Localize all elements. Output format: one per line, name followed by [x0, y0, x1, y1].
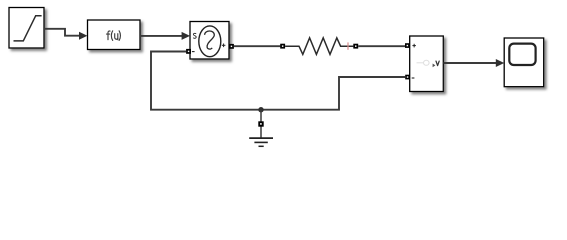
voltage measurement block [410, 36, 444, 92]
feedback wire: source minus to ground rail to measurement minus [151, 52, 405, 110]
port + of voltage source [229, 44, 234, 49]
wire resistor to voltage measurement + [358, 45, 405, 47]
wire v output to scope [443, 59, 504, 67]
wire saturation to f(u) [44, 29, 87, 40]
red connection tick [347, 42, 349, 49]
resistor right port [353, 44, 358, 49]
port - of voltage measurement [405, 75, 410, 80]
wire voltage source + to resistor [234, 45, 281, 47]
f(u) function block [88, 20, 141, 50]
scope block [504, 38, 544, 87]
saturation block [9, 8, 44, 49]
controlled voltage source block [190, 22, 229, 60]
ground port [258, 121, 263, 126]
ground branch wire [260, 110, 262, 138]
wire f(u) to voltage source s input [140, 32, 190, 40]
resistor zigzag [285, 38, 353, 55]
port + of voltage measurement [405, 43, 410, 48]
ground symbol [249, 138, 273, 146]
port - of voltage source [186, 49, 191, 54]
junction node at ground tap [258, 107, 263, 112]
resistor left port [280, 44, 285, 49]
